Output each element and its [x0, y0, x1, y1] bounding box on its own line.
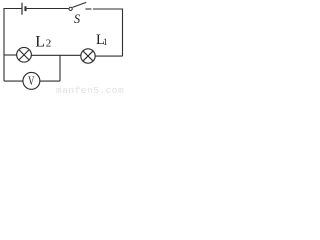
svg-text:2: 2 [46, 38, 52, 50]
svg-text:V: V [28, 74, 34, 88]
svg-text:L: L [35, 33, 45, 50]
svg-text:manfen5.com: manfen5.com [56, 85, 124, 94]
svg-text:S: S [74, 12, 81, 26]
svg-text:1: 1 [103, 37, 108, 47]
